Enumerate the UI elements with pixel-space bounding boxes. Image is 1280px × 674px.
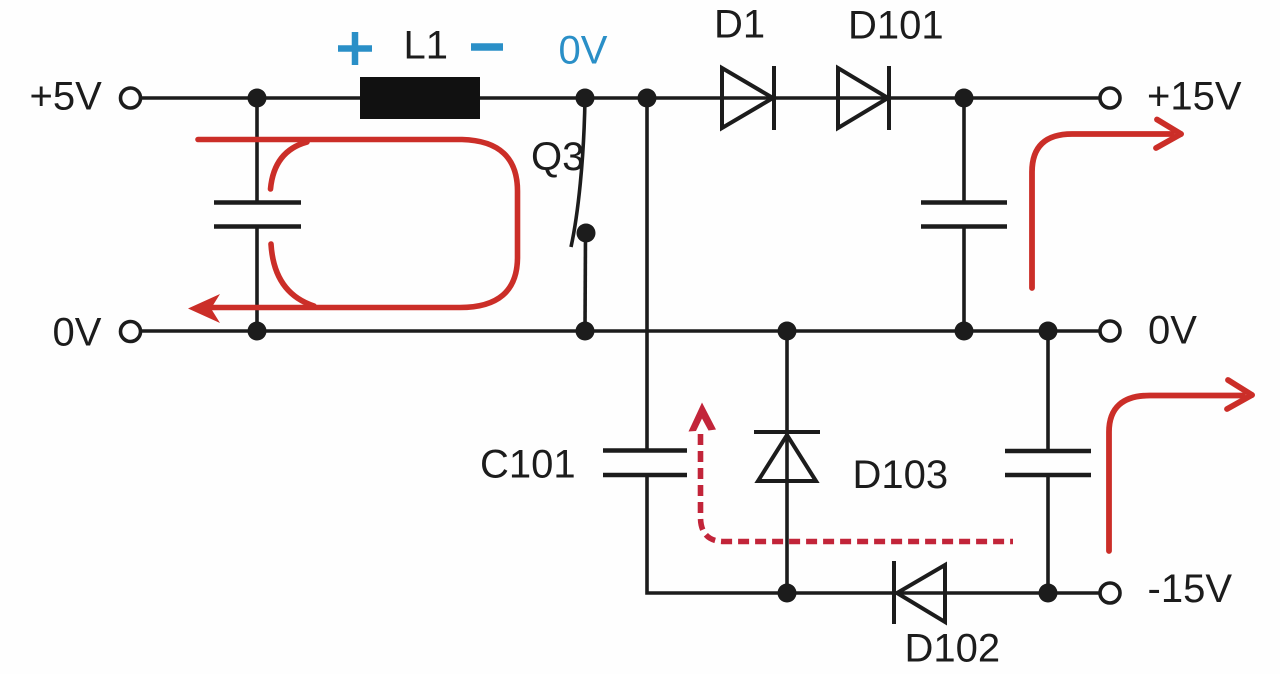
transistor Q3 contact dot [577,224,596,243]
node D101 cathode junction [955,89,974,108]
wire top rail left (+5V terminal to L1) [142,96,362,100]
svg-text:D102: D102 [905,627,1001,671]
diode D102 [894,561,945,624]
red arrow to -15V [1109,380,1252,551]
node 0V rail capacitor junction [955,322,974,341]
diode D101 [838,66,889,130]
diode D1 [722,66,774,130]
svg-text:L1: L1 [404,24,449,68]
node Q3 top junction [576,89,595,108]
svg-text:D101: D101 [848,3,944,47]
svg-text:D1: D1 [714,3,765,47]
wire left capacitor branch lower [255,227,259,331]
transistor Q3 switch arm [571,98,585,247]
wire 0V rail [142,329,1099,333]
node 0V rail Q3 junction [576,322,595,341]
wire C101 branch from top rail [645,98,649,450]
terminal 0V left [121,322,141,342]
terminal 0V right [1100,321,1120,341]
red loop arrowhead (left) [188,294,220,323]
terminal -15V [1100,583,1120,603]
inductor L1 [360,77,480,119]
svg-text:Q3: Q3 [531,135,584,179]
svg-text:C101: C101 [480,443,576,487]
node bottom rail D103 junction [778,584,797,603]
diode D103 [754,432,820,481]
wire bottom right capacitor lower [1046,475,1050,593]
node bottom rail capacitor junction [1039,584,1058,603]
capacitor (input, left) [214,203,301,227]
svg-text:-15V: -15V [1148,567,1233,611]
terminal +15V [1100,88,1120,108]
svg-text:D103: D103 [853,453,949,497]
inductor polarity minus (blue) [471,43,503,51]
node C101 top junction [638,89,657,108]
svg-text:+15V: +15V [1147,75,1242,119]
wire right top capacitor lower [962,227,966,331]
wire top rail right (L1 to +15V terminal) [478,96,1099,100]
svg-text:0V: 0V [559,29,608,73]
terminal +5V [121,88,141,108]
capacitor C101 [603,451,687,476]
node top rail left junction [248,89,267,108]
svg-text:0V: 0V [1148,309,1197,353]
red dashed return-current arrow [689,403,1014,542]
wire Q3 to 0V rail [583,233,587,331]
wire D103 branch [785,331,789,593]
inductor polarity plus (blue) [338,32,372,65]
capacitor (+15V output) [921,203,1007,227]
node 0V rail right junction [1039,322,1058,341]
wire bottom rail (-15V) [647,477,1099,593]
capacitor (-15V output) [1005,451,1091,475]
svg-text:0V: 0V [53,311,102,355]
wire right top capacitor upper [962,98,966,202]
node 0V rail D103 junction [778,322,797,341]
red current loop annotation [198,140,518,308]
wire bottom right capacitor upper [1046,331,1050,451]
red arrow to +15V [1032,120,1181,289]
svg-text:+5V: +5V [30,75,103,119]
wire left capacitor branch upper [255,98,259,202]
node 0V rail left junction [248,322,267,341]
